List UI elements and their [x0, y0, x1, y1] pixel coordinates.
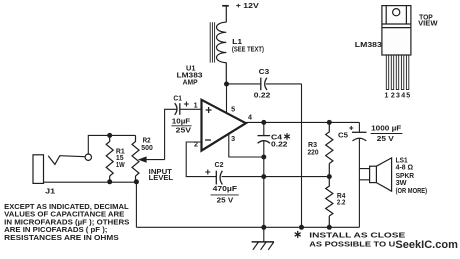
svg-text:25V: 25V	[176, 127, 192, 134]
svg-text:C4: C4	[271, 134, 282, 141]
svg-text:10µF: 10µF	[172, 118, 191, 125]
node: R2 bottom junction	[134, 179, 139, 184]
jack J1	[33, 154, 92, 183]
op-amp - input sign	[205, 139, 211, 141]
wire: bottom input node	[44, 181, 137, 183]
C4 critical-placement asterisk	[284, 133, 290, 140]
wire: input ground drop	[135, 182, 137, 228]
capacitor C1	[175, 103, 180, 115]
ground rail	[136, 226, 359, 228]
wire: pin 5 to node A	[226, 84, 228, 114]
svg-text:RESISTANCES ARE IN OHMS: RESISTANCES ARE IN OHMS	[4, 233, 119, 242]
svg-text:R3: R3	[308, 142, 317, 149]
node: R1 top junction	[107, 133, 112, 138]
svg-text:4-8 Ω: 4-8 Ω	[396, 165, 414, 172]
svg-text:LM383: LM383	[355, 42, 382, 49]
capacitor C4	[263, 122, 265, 135]
wire: C3 to bypass drop corner	[266, 83, 302, 85]
capacitor C3	[261, 78, 267, 91]
svg-text:3: 3	[231, 136, 235, 143]
svg-text:2: 2	[194, 142, 198, 149]
node: R4 at ground rail	[327, 225, 332, 230]
svg-text:VIEW: VIEW	[418, 20, 438, 27]
wire: L1 to node A	[225, 63, 227, 84]
svg-text:3W: 3W	[396, 180, 407, 187]
svg-text:25 V: 25 V	[217, 198, 234, 205]
wire: node A to C3	[227, 83, 261, 85]
svg-text:SeekIC.com: SeekIC.com	[395, 239, 458, 251]
wire: C5 to speaker and return	[359, 138, 369, 227]
node: C4 chain at ground rail	[261, 225, 266, 230]
resistor R1	[106, 135, 113, 181]
svg-text:5: 5	[406, 93, 410, 100]
package legs	[386, 55, 409, 90]
svg-text:C5: C5	[338, 133, 348, 140]
svg-text:220: 220	[308, 149, 319, 156]
svg-text:2.2: 2.2	[337, 200, 346, 207]
potentiometer R2	[132, 135, 139, 181]
node: feedback junction R3/R4	[327, 174, 332, 179]
svg-text:LM383: LM383	[177, 72, 203, 79]
resistor R3	[326, 122, 333, 176]
wire: J1 tip to input node	[88, 135, 135, 154]
svg-text:LS1: LS1	[396, 158, 408, 165]
node: output / C4	[261, 120, 266, 125]
speaker LS1	[370, 158, 392, 191]
node: C2 / C4 chain	[261, 174, 266, 179]
op-amp U1 LM383 triangle	[202, 100, 246, 151]
svg-text:(OR MORE): (OR MORE)	[396, 188, 428, 195]
svg-text:500: 500	[141, 145, 153, 152]
node: bypass at ground rail	[299, 225, 304, 230]
svg-text:1: 1	[385, 93, 389, 100]
output wire	[246, 121, 360, 123]
LM383 package top view	[382, 6, 411, 55]
wire: pin 2 to C2	[186, 142, 216, 177]
C5 + polarity	[349, 126, 353, 130]
node: output / R3	[327, 120, 332, 125]
op-amp + input sign	[206, 107, 212, 113]
svg-text:2: 2	[391, 93, 395, 100]
node: pin3 / C4 chain	[261, 155, 266, 160]
svg-text:U1: U1	[186, 65, 196, 72]
svg-text:AS POSSIBLE TO U: AS POSSIBLE TO U	[309, 241, 395, 248]
package pin numbers	[385, 93, 411, 100]
svg-text:1: 1	[194, 103, 198, 110]
svg-text:(SEE TEXT): (SEE TEXT)	[232, 46, 264, 53]
svg-text:AMP: AMP	[183, 79, 198, 86]
svg-text:C3: C3	[259, 69, 270, 76]
node A: pin5 / L1 / C3 junction	[224, 82, 229, 87]
decimal-values note	[4, 202, 129, 242]
svg-text:+ 12V: + 12V	[236, 3, 259, 10]
svg-text:SPKR: SPKR	[396, 173, 415, 180]
svg-text:470µF: 470µF	[213, 186, 238, 193]
svg-text:0.22: 0.22	[271, 142, 288, 149]
svg-text:4: 4	[401, 93, 405, 100]
svg-text:J1: J1	[45, 188, 55, 195]
node: R1 bottom junction	[107, 179, 112, 184]
svg-text:15: 15	[116, 155, 124, 162]
svg-text:0.22: 0.22	[254, 93, 271, 100]
wire: C2 to feedback node	[222, 176, 330, 178]
svg-text:25 V: 25 V	[377, 136, 394, 143]
resistor R4	[326, 177, 333, 228]
svg-text:C2: C2	[215, 162, 224, 169]
wire: R2 wiper to C1	[165, 109, 177, 159]
svg-text:C1: C1	[173, 96, 182, 103]
wire: C1 to pin 1	[180, 108, 202, 110]
C1 + polarity	[184, 102, 189, 107]
svg-text:4: 4	[248, 115, 252, 122]
install-note asterisk	[295, 231, 301, 238]
wire: pin 3 to ground chain	[229, 134, 264, 157]
svg-text:1W: 1W	[116, 162, 125, 169]
ground symbol	[252, 227, 274, 250]
svg-text:1000 µF: 1000 µF	[371, 126, 402, 133]
svg-text:INSTALL AS CLOSE: INSTALL AS CLOSE	[309, 233, 405, 240]
svg-text:R2: R2	[143, 137, 151, 144]
svg-text:3: 3	[396, 93, 400, 100]
capacitor C2	[216, 171, 222, 185]
svg-text:LEVEL: LEVEL	[149, 175, 174, 182]
svg-text:L1: L1	[232, 39, 242, 46]
wire: bypass vertical C3 to ground rail	[301, 84, 303, 227]
svg-text:5: 5	[231, 106, 235, 113]
capacitor C5	[358, 122, 360, 132]
+12V supply terminal	[222, 6, 229, 22]
C2 + polarity	[205, 170, 210, 175]
inductor L1	[210, 22, 226, 62]
R2 wiper arrow	[146, 159, 165, 161]
